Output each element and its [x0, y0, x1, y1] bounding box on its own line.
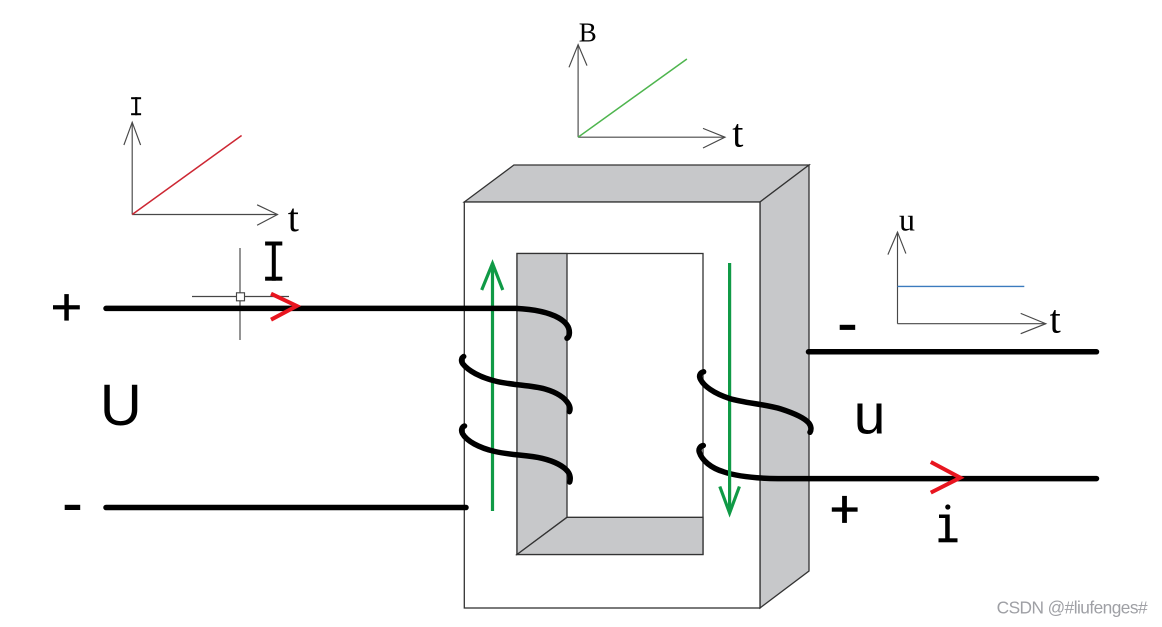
svg-text:t: t — [1050, 296, 1061, 341]
svg-text:t: t — [288, 195, 299, 240]
svg-text:t: t — [732, 111, 743, 156]
svg-text:u: u — [854, 383, 886, 447]
svg-text:B: B — [579, 17, 597, 47]
svg-text:u: u — [899, 202, 915, 238]
svg-text:CSDN @#liufenges#: CSDN @#liufenges# — [997, 598, 1148, 618]
svg-text:U: U — [100, 373, 142, 438]
